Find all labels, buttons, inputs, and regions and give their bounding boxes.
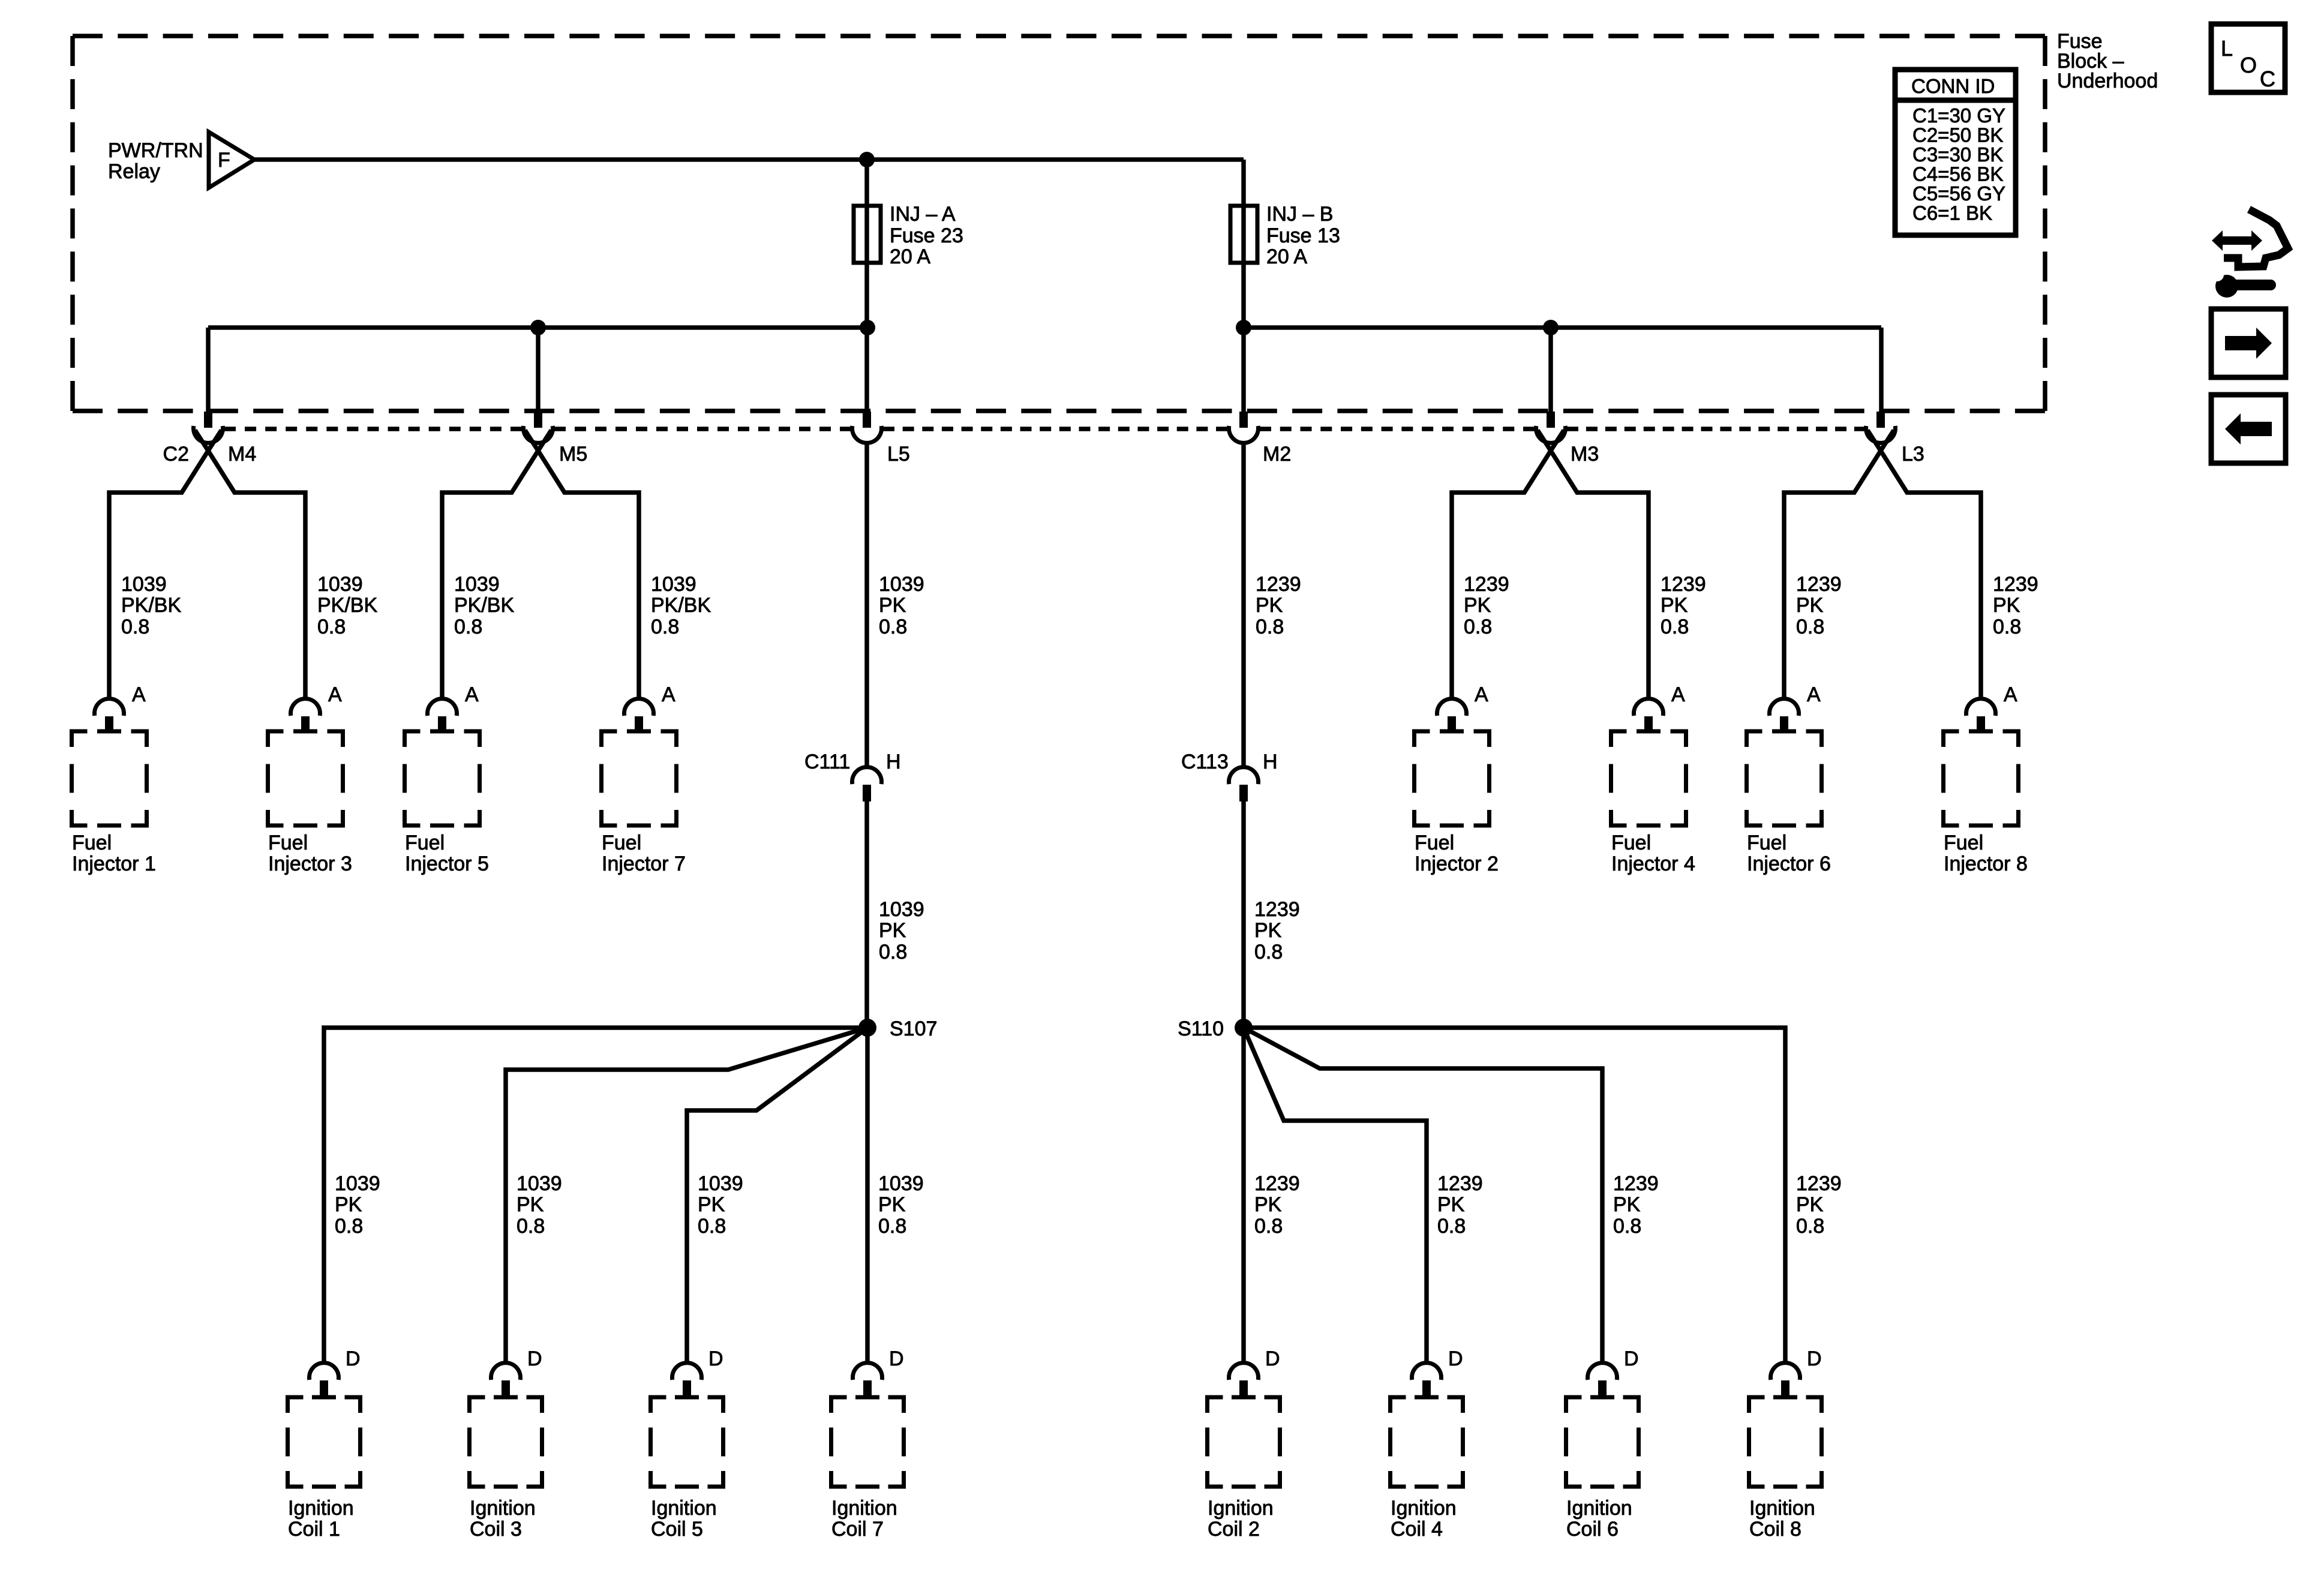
svg-text:PK/BK: PK/BK [651, 594, 711, 617]
svg-text:INJ – A: INJ – A [890, 203, 956, 226]
svg-text:D: D [1265, 1347, 1280, 1370]
svg-text:A: A [328, 683, 342, 706]
svg-text:A: A [1475, 683, 1488, 706]
svg-text:D: D [1807, 1347, 1822, 1370]
svg-text:Coil 3: Coil 3 [470, 1518, 522, 1541]
svg-text:PK: PK [517, 1193, 544, 1216]
svg-text:C: C [2260, 67, 2275, 91]
svg-text:PK: PK [1993, 594, 2020, 617]
svg-text:1039: 1039 [121, 573, 167, 596]
svg-text:PK: PK [1661, 594, 1688, 617]
svg-text:1039: 1039 [879, 573, 924, 596]
svg-text:Coil 7: Coil 7 [831, 1518, 884, 1541]
svg-text:D: D [346, 1347, 361, 1370]
svg-text:1039: 1039 [454, 573, 500, 596]
svg-text:PK: PK [878, 1193, 906, 1216]
svg-text:0.8: 0.8 [317, 616, 346, 638]
svg-text:PK: PK [1254, 919, 1282, 942]
svg-text:0.8: 0.8 [1661, 616, 1689, 638]
svg-text:L3: L3 [1902, 443, 1924, 466]
svg-text:Injector 3: Injector 3 [268, 852, 352, 875]
svg-text:0.8: 0.8 [1613, 1215, 1641, 1238]
svg-text:PK/BK: PK/BK [454, 594, 514, 617]
svg-text:Ignition: Ignition [288, 1497, 354, 1520]
svg-text:D: D [889, 1347, 904, 1370]
svg-text:1039: 1039 [878, 1172, 924, 1195]
svg-text:0.8: 0.8 [1254, 941, 1283, 963]
svg-text:1039: 1039 [651, 573, 696, 596]
svg-text:A: A [662, 683, 675, 706]
svg-text:1239: 1239 [1613, 1172, 1659, 1195]
svg-text:0.8: 0.8 [1796, 1215, 1824, 1238]
svg-text:C6=1 BK: C6=1 BK [1912, 202, 1992, 224]
svg-text:Relay: Relay [108, 160, 160, 183]
svg-text:PK: PK [1254, 1193, 1282, 1216]
svg-text:1239: 1239 [1796, 573, 1842, 596]
svg-text:PK: PK [1796, 1193, 1824, 1216]
svg-text:1239: 1239 [1254, 898, 1300, 921]
svg-text:1039: 1039 [517, 1172, 562, 1195]
svg-text:PK/BK: PK/BK [317, 594, 377, 617]
svg-text:Fuse 13: Fuse 13 [1266, 224, 1340, 247]
svg-text:Injector 2: Injector 2 [1415, 852, 1499, 875]
svg-text:1239: 1239 [1796, 1172, 1842, 1195]
svg-text:Fuel: Fuel [602, 831, 641, 854]
svg-text:PK: PK [879, 919, 906, 942]
svg-text:1039: 1039 [335, 1172, 380, 1195]
svg-text:F: F [218, 149, 230, 172]
svg-text:Coil 1: Coil 1 [288, 1518, 340, 1541]
svg-text:1039: 1039 [317, 573, 363, 596]
svg-text:0.8: 0.8 [1464, 616, 1492, 638]
svg-text:1239: 1239 [1661, 573, 1706, 596]
svg-text:PK: PK [1256, 594, 1283, 617]
svg-text:M2: M2 [1263, 443, 1291, 466]
svg-text:PK: PK [335, 1193, 362, 1216]
svg-text:0.8: 0.8 [879, 941, 907, 963]
svg-text:0.8: 0.8 [651, 616, 679, 638]
svg-text:1039: 1039 [879, 898, 924, 921]
svg-text:PK: PK [1437, 1193, 1465, 1216]
svg-text:Coil 2: Coil 2 [1208, 1518, 1260, 1541]
svg-text:1239: 1239 [1256, 573, 1301, 596]
svg-text:1039: 1039 [698, 1172, 743, 1195]
svg-text:Coil 6: Coil 6 [1566, 1518, 1619, 1541]
svg-text:Fuel: Fuel [1611, 831, 1651, 854]
svg-text:0.8: 0.8 [121, 616, 149, 638]
svg-text:Underhood: Underhood [2057, 70, 2158, 92]
svg-text:Injector 1: Injector 1 [72, 852, 156, 875]
svg-text:0.8: 0.8 [1993, 616, 2021, 638]
svg-text:0.8: 0.8 [517, 1215, 545, 1238]
svg-text:L: L [2221, 36, 2233, 61]
svg-text:CONN ID: CONN ID [1911, 75, 1995, 97]
svg-text:A: A [465, 683, 479, 706]
svg-text:H: H [1263, 751, 1278, 773]
svg-text:0.8: 0.8 [879, 616, 907, 638]
svg-text:Injector 4: Injector 4 [1611, 852, 1695, 875]
svg-text:PK: PK [879, 594, 906, 617]
svg-text:20 A: 20 A [890, 245, 930, 268]
svg-text:D: D [1624, 1347, 1639, 1370]
svg-text:S107: S107 [890, 1017, 937, 1040]
svg-text:Ignition: Ignition [1208, 1497, 1274, 1520]
svg-text:C5=56 GY: C5=56 GY [1912, 182, 2005, 205]
svg-text:0.8: 0.8 [698, 1215, 726, 1238]
svg-text:Fuel: Fuel [405, 831, 445, 854]
svg-text:C4=56 BK: C4=56 BK [1912, 163, 2003, 185]
svg-text:PK: PK [698, 1193, 725, 1216]
svg-text:M5: M5 [559, 443, 587, 466]
svg-text:Fuel: Fuel [1747, 831, 1786, 854]
svg-text:PK/BK: PK/BK [121, 594, 181, 617]
svg-text:Fuel: Fuel [72, 831, 112, 854]
svg-text:Ignition: Ignition [651, 1497, 717, 1520]
svg-text:D: D [527, 1347, 542, 1370]
svg-text:D: D [1448, 1347, 1463, 1370]
svg-text:O: O [2240, 53, 2257, 77]
svg-text:PK: PK [1796, 594, 1824, 617]
svg-text:1239: 1239 [1464, 573, 1509, 596]
svg-text:0.8: 0.8 [1256, 616, 1284, 638]
svg-text:C1=30 GY: C1=30 GY [1912, 104, 2005, 127]
svg-text:Coil 4: Coil 4 [1391, 1518, 1443, 1541]
svg-text:Coil 5: Coil 5 [651, 1518, 703, 1541]
svg-text:C113: C113 [1181, 751, 1229, 773]
svg-text:1239: 1239 [1254, 1172, 1300, 1195]
svg-text:D: D [708, 1347, 723, 1370]
svg-text:0.8: 0.8 [454, 616, 482, 638]
svg-text:M4: M4 [228, 443, 256, 466]
svg-text:C3=30 BK: C3=30 BK [1912, 143, 2003, 166]
svg-text:C2: C2 [163, 443, 189, 466]
svg-text:PK: PK [1464, 594, 1491, 617]
svg-text:A: A [1807, 683, 1821, 706]
svg-text:1239: 1239 [1437, 1172, 1483, 1195]
svg-text:20 A: 20 A [1266, 245, 1307, 268]
svg-text:C111: C111 [804, 751, 850, 773]
svg-text:M3: M3 [1571, 443, 1599, 466]
svg-text:S110: S110 [1178, 1017, 1224, 1040]
svg-text:Injector 5: Injector 5 [405, 852, 489, 875]
svg-text:PWR/TRN: PWR/TRN [108, 139, 203, 162]
svg-text:Injector 6: Injector 6 [1747, 852, 1831, 875]
svg-text:0.8: 0.8 [1796, 616, 1824, 638]
svg-text:Ignition: Ignition [831, 1497, 897, 1520]
svg-text:H: H [886, 751, 901, 773]
svg-text:A: A [132, 683, 146, 706]
svg-text:INJ – B: INJ – B [1266, 203, 1333, 226]
svg-text:A: A [1671, 683, 1685, 706]
svg-text:Ignition: Ignition [1749, 1497, 1815, 1520]
svg-text:0.8: 0.8 [335, 1215, 363, 1238]
svg-text:L5: L5 [887, 443, 910, 466]
svg-text:Fuel: Fuel [1944, 831, 1983, 854]
svg-text:Coil 8: Coil 8 [1749, 1518, 1801, 1541]
svg-text:PK: PK [1613, 1193, 1641, 1216]
svg-text:Fuse 23: Fuse 23 [890, 224, 963, 247]
svg-text:Ignition: Ignition [1566, 1497, 1632, 1520]
svg-text:0.8: 0.8 [1254, 1215, 1283, 1238]
svg-text:Fuel: Fuel [268, 831, 308, 854]
svg-text:Ignition: Ignition [1391, 1497, 1457, 1520]
svg-text:Injector 8: Injector 8 [1944, 852, 2028, 875]
svg-text:A: A [2004, 683, 2017, 706]
svg-text:C2=50 BK: C2=50 BK [1912, 124, 2003, 146]
svg-text:Ignition: Ignition [470, 1497, 536, 1520]
svg-text:0.8: 0.8 [1437, 1215, 1466, 1238]
svg-text:1239: 1239 [1993, 573, 2038, 596]
svg-text:Injector 7: Injector 7 [602, 852, 686, 875]
svg-text:Fuel: Fuel [1415, 831, 1454, 854]
svg-text:0.8: 0.8 [878, 1215, 906, 1238]
